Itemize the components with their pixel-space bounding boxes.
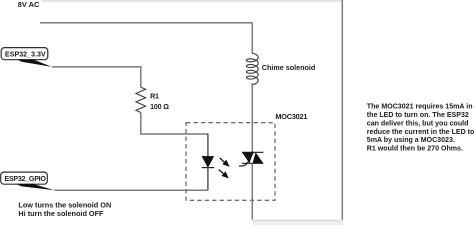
wire GPIO horizontal: [54, 189, 208, 191]
label R1 100 ohm: [150, 92, 169, 111]
svg-text:ESP32_3.3V: ESP32_3.3V: [5, 51, 46, 59]
svg-text:ESP32_GPIO: ESP32_GPIO: [4, 175, 46, 183]
opto triac: [239, 152, 263, 166]
optocoupler U1 MOC3021 dashed outline: [186, 123, 275, 201]
wire R1 to LED anode: [141, 113, 208, 135]
annotation low/hi note: [18, 201, 111, 218]
opto LED: [202, 156, 214, 167]
net flag ESP32_3.3V: [1, 48, 52, 67]
svg-text:reduce the current in the LED: reduce the current in the LED to: [367, 129, 474, 136]
inductor L1 chime solenoid: [246, 53, 258, 85]
resistor R1: [136, 87, 146, 112]
svg-text:5mA by using a MOC3023.: 5mA by using a MOC3023.: [367, 137, 455, 144]
wire triac to bottom: [251, 163, 253, 219]
svg-text:the LED to turn on. The ESP32: the LED to turn on. The ESP32: [367, 112, 469, 119]
svg-text:8V AC: 8V AC: [18, 0, 40, 9]
net flag ESP32_GPIO: [1, 172, 55, 190]
svg-text:can deliver this, but you coul: can deliver this, but you could: [367, 120, 469, 127]
svg-text:The MOC3021 requires 15mA in: The MOC3021 requires 15mA in: [367, 104, 473, 111]
opto LED light arrows: [219, 158, 229, 177]
wire LED anode lead: [207, 134, 209, 157]
wire LED cathode lead: [207, 168, 209, 191]
svg-text:Hi turn the solenoid OFF: Hi turn the solenoid OFF: [18, 209, 104, 218]
wire ESP32_3.3V to R1: [52, 67, 141, 87]
annotation MOC3021 note: [367, 104, 474, 153]
svg-text:Chime solenoid: Chime solenoid: [262, 63, 316, 72]
svg-text:R1 would then be 270 Ohms.: R1 would then be 270 Ohms.: [367, 146, 463, 153]
wire 8V AC top rail: [40, 22, 252, 24]
wire AC return right side: [341, 0, 343, 220]
svg-text:R1: R1: [150, 92, 159, 100]
wire solenoid top lead: [251, 23, 253, 53]
wire solenoid to triac: [251, 83, 253, 152]
svg-text:MOC3021: MOC3021: [275, 112, 307, 121]
svg-text:100 Ω: 100 Ω: [150, 103, 169, 111]
